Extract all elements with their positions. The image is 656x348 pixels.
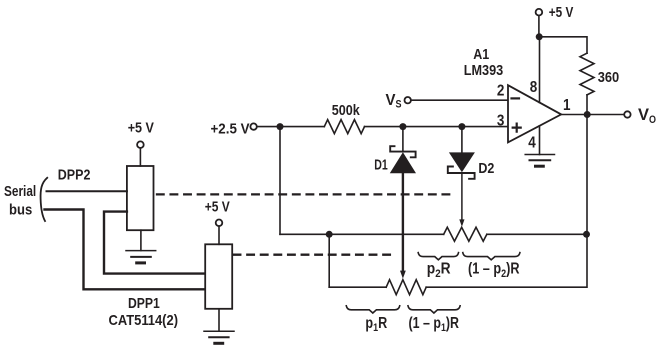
wire D2 cathode to p2 wiper [461,173,463,221]
junction dot output node [584,111,591,118]
wire serial bus line 1 to DPP2 [47,190,127,192]
junction dot +5V rail [536,33,543,40]
terminal +5V circle (DPP2) [137,141,144,148]
terminal +5V circle (DPP1) [216,220,223,227]
svg-text:VO: VO [638,105,656,126]
wire horizontal to lower-ladder node [280,233,329,235]
svg-text:+5 V: +5 V [549,4,574,21]
svg-text:p2R: p2R [427,261,451,280]
brace (1-p1)R right [408,306,460,313]
diode D1 triangle [390,152,416,173]
svg-text:CAT5114(2): CAT5114(2) [109,312,179,329]
brace p2R left [418,253,458,260]
resistor R 500k [324,120,364,134]
svg-text:+2.5 V: +2.5 V [211,120,250,137]
terminal +2.5V circle [250,123,256,129]
wire p2R rail left [329,233,444,235]
wire DPP1 +5V stem [218,226,220,244]
diode D2 (zener, pointing down) wire from rail [461,127,463,153]
op-amp minus sign [512,97,520,99]
svg-text:DPP2: DPP2 [58,167,91,184]
svg-text:500k: 500k [332,102,361,119]
svg-text:DPP1: DPP1 [128,295,160,312]
junction dot +2.5V rail [277,123,284,130]
ground (DPP2) [126,251,156,263]
junction dot ladder left node [326,231,333,238]
svg-text:D2: D2 [478,160,494,177]
wire Vs to op-amp - input [411,99,508,101]
terminal Vo circle [624,111,630,117]
svg-text:360: 360 [598,69,620,86]
wire p1R rail left [329,286,386,288]
junction dot feedback / p2R right [583,231,590,238]
svg-text:VS: VS [386,92,402,111]
wire p2R rail right [487,233,587,235]
pin 8 wire to +5V rail [539,37,541,103]
svg-text:A1: A1 [473,46,489,63]
diode D2 cathode bar with hooks [448,167,475,179]
potentiometer p2R zigzag [444,227,487,241]
wire DPP2 to DPP1 daisy chain [104,212,205,274]
svg-text:8: 8 [530,79,538,96]
svg-text:1: 1 [563,97,571,114]
svg-text:Serial: Serial [4,183,36,200]
wire thick D1 anode to p1 wiper [402,173,404,272]
dashed control line DPP1 to p1 wiper [234,254,397,256]
svg-text:2: 2 [497,82,505,99]
wire DPP2 +5V stem [139,148,141,166]
junction dot D1 top [399,123,406,130]
junction dot D2 top [458,123,465,130]
arrowhead p1 wiper [400,271,406,279]
wire serial bus line 2 (down and to DPP1) [45,210,206,290]
diode D2 triangle [449,152,475,172]
DPP2 box [127,166,154,230]
wire +5V rail to 360 resistor [539,37,587,53]
ground (op-amp pin 4) [525,155,554,167]
arrowhead p2 wiper [459,219,464,226]
wire +5V terminal down [538,16,540,37]
serial bus brace [41,178,48,221]
diode D1 (zener, pointing up) wire from rail [402,127,404,152]
svg-text:+5 V: +5 V [205,199,230,216]
resistor 360 [580,53,594,95]
svg-text:(1 – p2)R: (1 – p2)R [468,261,520,280]
potentiometer p1R zigzag [386,280,426,295]
dashed control line DPP2 to p2 wiper [157,193,453,195]
op-amp plus sign [513,124,521,132]
svg-text:+5 V: +5 V [128,119,154,136]
wire op-amp output to Vo [561,114,624,116]
wire DPP2 ground stem [140,230,142,250]
svg-text:D1: D1 [374,156,388,173]
wire vertical ladder left node down to p1R rail [328,234,330,287]
svg-text:bus: bus [9,201,32,218]
wire feedback continues to p1R right corner [426,234,587,287]
wire 500k to op-amp + input [365,126,509,128]
diode D1 cathode bar with hooks [390,146,415,157]
svg-text:3: 3 [497,112,505,129]
wire 360 bottom to output node [586,95,588,115]
brace p1R left [346,306,399,313]
wire +2.5V terminal to 500k resistor [257,126,324,128]
terminal Vs circle [405,97,411,103]
svg-text:p1R: p1R [365,315,387,334]
wire feedback vertical from output node down [586,115,588,235]
terminal +5V circle (op-amp) [536,9,543,16]
wire DPP1 ground stem [218,309,220,331]
svg-text:(1 – p1)R: (1 – p1)R [409,315,460,334]
svg-text:4: 4 [528,135,536,152]
op-amp U1 LM393 triangle [508,85,561,142]
pin 4 wire to ground [539,126,541,155]
svg-text:LM393: LM393 [464,62,504,79]
wire vertical from +2.5V junction down [279,127,281,235]
DPP1 box [205,244,232,308]
brace (1-p2)R right [463,253,520,260]
ground (DPP1) [204,331,234,343]
